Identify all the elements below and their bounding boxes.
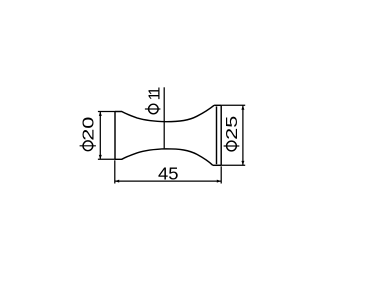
svg-text:45: 45 xyxy=(158,163,179,183)
svg-text:20: 20 xyxy=(81,116,98,141)
svg-text:25: 25 xyxy=(224,115,241,140)
svg-text:11: 11 xyxy=(147,87,164,101)
